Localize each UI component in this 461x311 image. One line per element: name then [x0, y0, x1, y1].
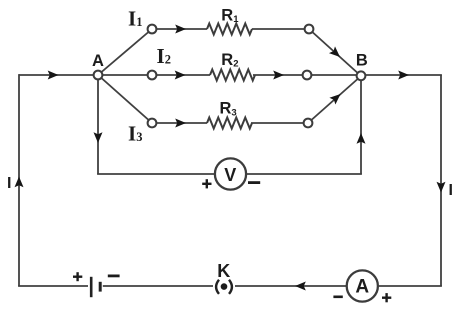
terminal: branch-2 left node circle — [148, 71, 157, 80]
wire: diagonal node A to branch-3 terminal — [98, 75, 152, 123]
resistor R1 — [207, 24, 252, 35]
wire: branch-3 right lead — [251, 122, 308, 124]
svg-text:R2: R2 — [221, 51, 238, 70]
wire: branch-1 left lead — [152, 28, 207, 30]
wire: bottom rail segment ammeter to right rail — [378, 285, 442, 287]
wire: diagonal branch-1 terminal to node B — [309, 29, 361, 76]
arrow: current I2 (rightward) — [175, 71, 186, 80]
battery cell: long positive plate — [90, 277, 93, 297]
arrow: current into node A (rightward) — [48, 71, 59, 80]
arrow: branch-2 current into node B (rightward) — [273, 71, 284, 80]
terminal: branch-1 right node circle — [305, 25, 314, 34]
arrow: current I downward on right rail — [437, 182, 446, 193]
svg-text:B: B — [356, 51, 368, 69]
arrow: downward on voltmeter tap — [94, 132, 103, 143]
label - (voltmeter negative terminal) — [248, 181, 260, 184]
svg-text:I: I — [7, 175, 11, 192]
arrow: upward toward node B on voltmeter tap — [357, 133, 366, 144]
svg-text:R1: R1 — [221, 7, 239, 26]
wire: voltmeter horizontal run — [97, 173, 362, 175]
wire: branch-3 left lead — [152, 122, 207, 124]
arrow: branch-1 current into node B (down-right) — [329, 46, 343, 60]
wire: left vertical rail — [18, 74, 20, 286]
wire: voltmeter tap up to node B — [360, 76, 362, 174]
wire: branch-2 right lead to node B — [253, 74, 361, 76]
svg-text:K: K — [217, 261, 230, 281]
wire: bottom rail segment battery to key K — [103, 285, 213, 287]
wire: right vertical rail — [440, 75, 442, 286]
wire: diagonal branch-3 terminal to node B — [308, 76, 361, 123]
terminal: branch-1 left node circle — [148, 25, 157, 34]
svg-text:I3: I3 — [128, 122, 142, 146]
label - (battery negative) — [108, 274, 120, 277]
arrow: current from B to right rail (rightward) — [398, 71, 409, 80]
svg-text:I2: I2 — [157, 44, 171, 68]
svg-text:I1: I1 — [128, 7, 142, 31]
label - (ammeter negative terminal) — [333, 295, 342, 298]
terminal: branch-3 left node circle — [148, 119, 157, 128]
arrow: current I3 (rightward) — [175, 119, 186, 128]
svg-text:R3: R3 — [220, 100, 237, 119]
node B (junction circle) — [357, 71, 366, 80]
key K: right contact arc — [229, 280, 232, 294]
wire: voltmeter tap down from node A — [97, 75, 99, 174]
wire: top-left horizontal from left rail to node A — [19, 74, 98, 76]
svg-text:A: A — [355, 277, 369, 298]
battery cell: short negative plate — [99, 282, 102, 292]
svg-text:A: A — [92, 52, 104, 70]
terminal: branch-3 right node circle — [304, 119, 313, 128]
wire: bottom rail segment key to ammeter — [235, 285, 346, 287]
label + (battery positive) — [73, 272, 82, 281]
wire: branch-1 right lead — [252, 28, 309, 30]
terminal: branch-2 right node circle — [303, 71, 312, 80]
voltmeter V — [215, 158, 246, 189]
svg-text:I: I — [449, 182, 453, 199]
wire: branch-2 left lead from node A — [98, 74, 210, 76]
arrow: current leftward toward key — [295, 282, 306, 291]
wire: diagonal node A to branch-1 terminal — [98, 29, 152, 75]
wire: bottom rail left segment (left rail to battery +) — [18, 285, 88, 287]
ammeter A — [347, 270, 378, 301]
key K: left contact arc — [216, 280, 219, 294]
svg-text:V: V — [224, 165, 236, 185]
arrow: current I upward on left rail — [15, 177, 24, 188]
key K: plug dot — [221, 283, 228, 290]
node A (junction circle) — [94, 71, 103, 80]
arrow: current I1 (rightward) — [175, 25, 186, 34]
label + (voltmeter positive terminal) — [202, 179, 211, 188]
resistor R3 — [207, 118, 252, 129]
resistor R2 — [210, 70, 255, 81]
wire: top-right horizontal from node B to right rail — [361, 74, 442, 76]
label + (ammeter positive terminal) — [382, 293, 391, 302]
arrow: branch-3 current into node B (up-right) — [329, 91, 343, 105]
